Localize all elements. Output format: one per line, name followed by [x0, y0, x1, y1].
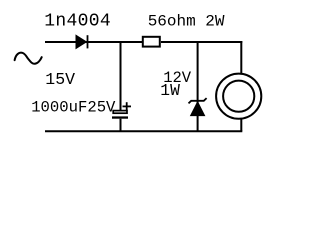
svg-text:15V: 15V: [45, 70, 75, 89]
wire zener branch: [197, 41, 199, 131]
capacitor C1 top plate (hollow): [113, 111, 127, 114]
svg-text:1n4004: 1n4004: [44, 12, 111, 32]
capacitor C1 bottom plate (solid): [112, 116, 128, 118]
plus polarity mark: [123, 105, 132, 107]
diode D1 1n4004 (triangle + cathode bar): [76, 35, 86, 48]
svg-text:56ohm 2W: 56ohm 2W: [148, 12, 225, 30]
wire bottom rail: [45, 130, 242, 132]
zener diode Z1 triangle (anode, pointing up): [191, 102, 205, 116]
wire capacitor branch upper: [120, 41, 122, 111]
AC source V1 (sine tilde): [15, 53, 42, 64]
svg-text:1000uF25V: 1000uF25V: [31, 99, 116, 117]
zener diode Z1 cathode bar with bent ends: [189, 98, 207, 103]
wire top rail right segment: [161, 41, 242, 43]
wire capacitor branch lower: [120, 119, 122, 132]
wire right branch lower: [240, 119, 242, 132]
svg-text:1W: 1W: [160, 81, 180, 100]
lamp/load outer circle: [216, 74, 261, 119]
resistor R1 (box): [143, 37, 160, 47]
lamp/load inner circle: [223, 81, 254, 112]
wire top rail left segment: [45, 41, 142, 43]
wire right branch upper: [240, 41, 242, 74]
